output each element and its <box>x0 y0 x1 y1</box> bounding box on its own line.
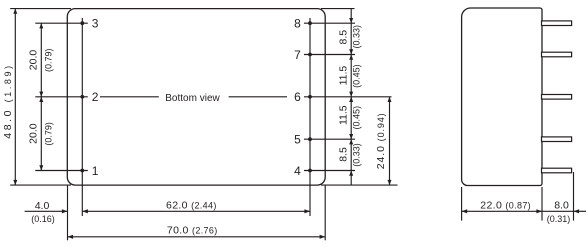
arrowhead 70.0 right <box>320 235 326 239</box>
extension line bottom-right <box>321 184 398 186</box>
wire pin2 to Bottom view <box>100 96 159 98</box>
svg-text:Bottom view: Bottom view <box>165 93 220 104</box>
dimension line 8.0 <box>542 210 574 212</box>
arrowhead 62.0 right <box>304 209 310 213</box>
arrowhead 8.0 left-pointing outside <box>574 209 580 213</box>
side view pin 4 <box>542 168 572 173</box>
extension line side right <box>573 172 575 221</box>
side view pin 7 <box>542 52 572 57</box>
arrowhead 70.0 left <box>68 235 74 239</box>
arrowhead 22.0 right <box>536 209 542 213</box>
pin 3 dot <box>80 21 84 25</box>
arrowhead chain down at pin8 <box>349 18 353 23</box>
svg-text:8.0: 8.0 <box>554 200 569 212</box>
dimension line 24.0 <box>389 97 391 185</box>
svg-text:6: 6 <box>294 90 301 104</box>
pin 7 dot <box>308 53 312 57</box>
package outline bottom view <box>67 9 325 186</box>
pin 2 dot <box>80 95 84 99</box>
extension line pin5 row <box>304 138 355 140</box>
pin 1 dot <box>80 169 84 173</box>
wire Bottom view to pin6 <box>229 96 287 98</box>
svg-text:24.0 (0.94): 24.0 (0.94) <box>375 112 387 169</box>
svg-text:22.0 (0.87): 22.0 (0.87) <box>480 200 531 212</box>
svg-text:70.0 (2.76): 70.0 (2.76) <box>167 225 218 237</box>
svg-text:8.5: 8.5 <box>338 147 350 162</box>
svg-text:(0.33): (0.33) <box>352 143 362 167</box>
dimension line 20.0 lower <box>40 97 42 171</box>
right pin column line <box>309 18 311 216</box>
side view pin 6 <box>542 95 572 100</box>
arrowhead bowtie at pin5 <box>349 139 353 144</box>
arrowhead 48.0 down <box>13 180 17 185</box>
svg-text:1: 1 <box>92 164 99 178</box>
extension line pin3 row <box>35 22 88 24</box>
extension line pin8 row <box>304 22 355 24</box>
arrowhead 4.0 right <box>62 209 68 213</box>
left pin column line <box>81 18 83 216</box>
arrowhead bowtie at pin7 <box>349 55 353 60</box>
svg-text:(0.16): (0.16) <box>31 214 55 224</box>
pin 8 dot <box>308 21 312 25</box>
chain dimension line right <box>350 9 352 186</box>
arrowhead 24.0 down <box>388 180 392 185</box>
dimension line 20.0 upper <box>40 23 42 97</box>
extension line pin7 row <box>304 54 355 56</box>
arrowhead bowtie at pin2 <box>39 97 43 102</box>
side view pin 8 <box>542 21 572 26</box>
svg-text:8: 8 <box>294 17 301 31</box>
svg-text:(0.33): (0.33) <box>352 25 362 49</box>
svg-text:(0.45): (0.45) <box>352 106 362 130</box>
dimension line 22.0 <box>462 210 542 212</box>
dimension line 4.0 <box>25 210 68 212</box>
extension line pin6 row <box>304 96 392 98</box>
svg-text:(0.31): (0.31) <box>547 214 571 224</box>
pin 4 dot <box>308 169 312 173</box>
extension column right edge <box>324 185 326 240</box>
arrowhead 48.0 up <box>13 9 17 14</box>
svg-text:20.0: 20.0 <box>28 50 40 71</box>
dimension line 70.0 <box>68 236 326 238</box>
extension line pin4 row <box>304 170 355 172</box>
svg-text:8.5: 8.5 <box>338 30 350 45</box>
svg-text:(0.45): (0.45) <box>352 64 362 88</box>
dimension tail 8.0 right <box>574 210 587 212</box>
extension line side middle <box>541 187 543 221</box>
svg-text:11.5: 11.5 <box>338 66 350 86</box>
extension line top-right <box>321 8 355 10</box>
pin 6 dot <box>308 95 312 99</box>
arrowhead 24.0 up <box>388 97 392 102</box>
svg-text:2: 2 <box>92 90 99 104</box>
arrowhead 20.0 up at pin3 <box>39 23 43 28</box>
svg-text:48.0 (1.89): 48.0 (1.89) <box>2 63 14 138</box>
svg-text:4: 4 <box>294 164 301 178</box>
svg-text:3: 3 <box>92 17 99 31</box>
pin 5 dot <box>308 137 312 141</box>
side view pin 5 <box>542 137 572 142</box>
svg-text:62.0 (2.44): 62.0 (2.44) <box>166 199 217 211</box>
svg-text:5: 5 <box>294 133 301 147</box>
extension line pin2 row <box>35 96 88 98</box>
extension line bottom-left (48.0 dim) <box>10 184 71 186</box>
svg-text:(0.79): (0.79) <box>44 49 54 73</box>
svg-text:(0.79): (0.79) <box>44 122 54 146</box>
dimension line 48.0 <box>14 9 16 186</box>
arrowhead 20.0 down at pin1 <box>39 165 43 170</box>
dimension line 62.0 <box>82 210 310 212</box>
svg-text:20.0: 20.0 <box>28 123 40 144</box>
svg-text:11.5: 11.5 <box>338 105 350 125</box>
arrowhead 62.0 left <box>82 209 88 213</box>
arrowhead bowtie at pin6 <box>349 97 353 102</box>
side view package outline <box>462 8 542 186</box>
extension column left edge <box>67 185 69 240</box>
extension line pin1 row <box>35 170 88 172</box>
extension line top-left (48.0 dim) <box>10 8 71 10</box>
arrowhead 22.0 left <box>462 209 468 213</box>
svg-text:4.0: 4.0 <box>35 200 50 212</box>
svg-text:7: 7 <box>294 48 301 62</box>
arrowhead chain up at pin4 <box>349 171 353 176</box>
extension line side left <box>461 187 463 221</box>
